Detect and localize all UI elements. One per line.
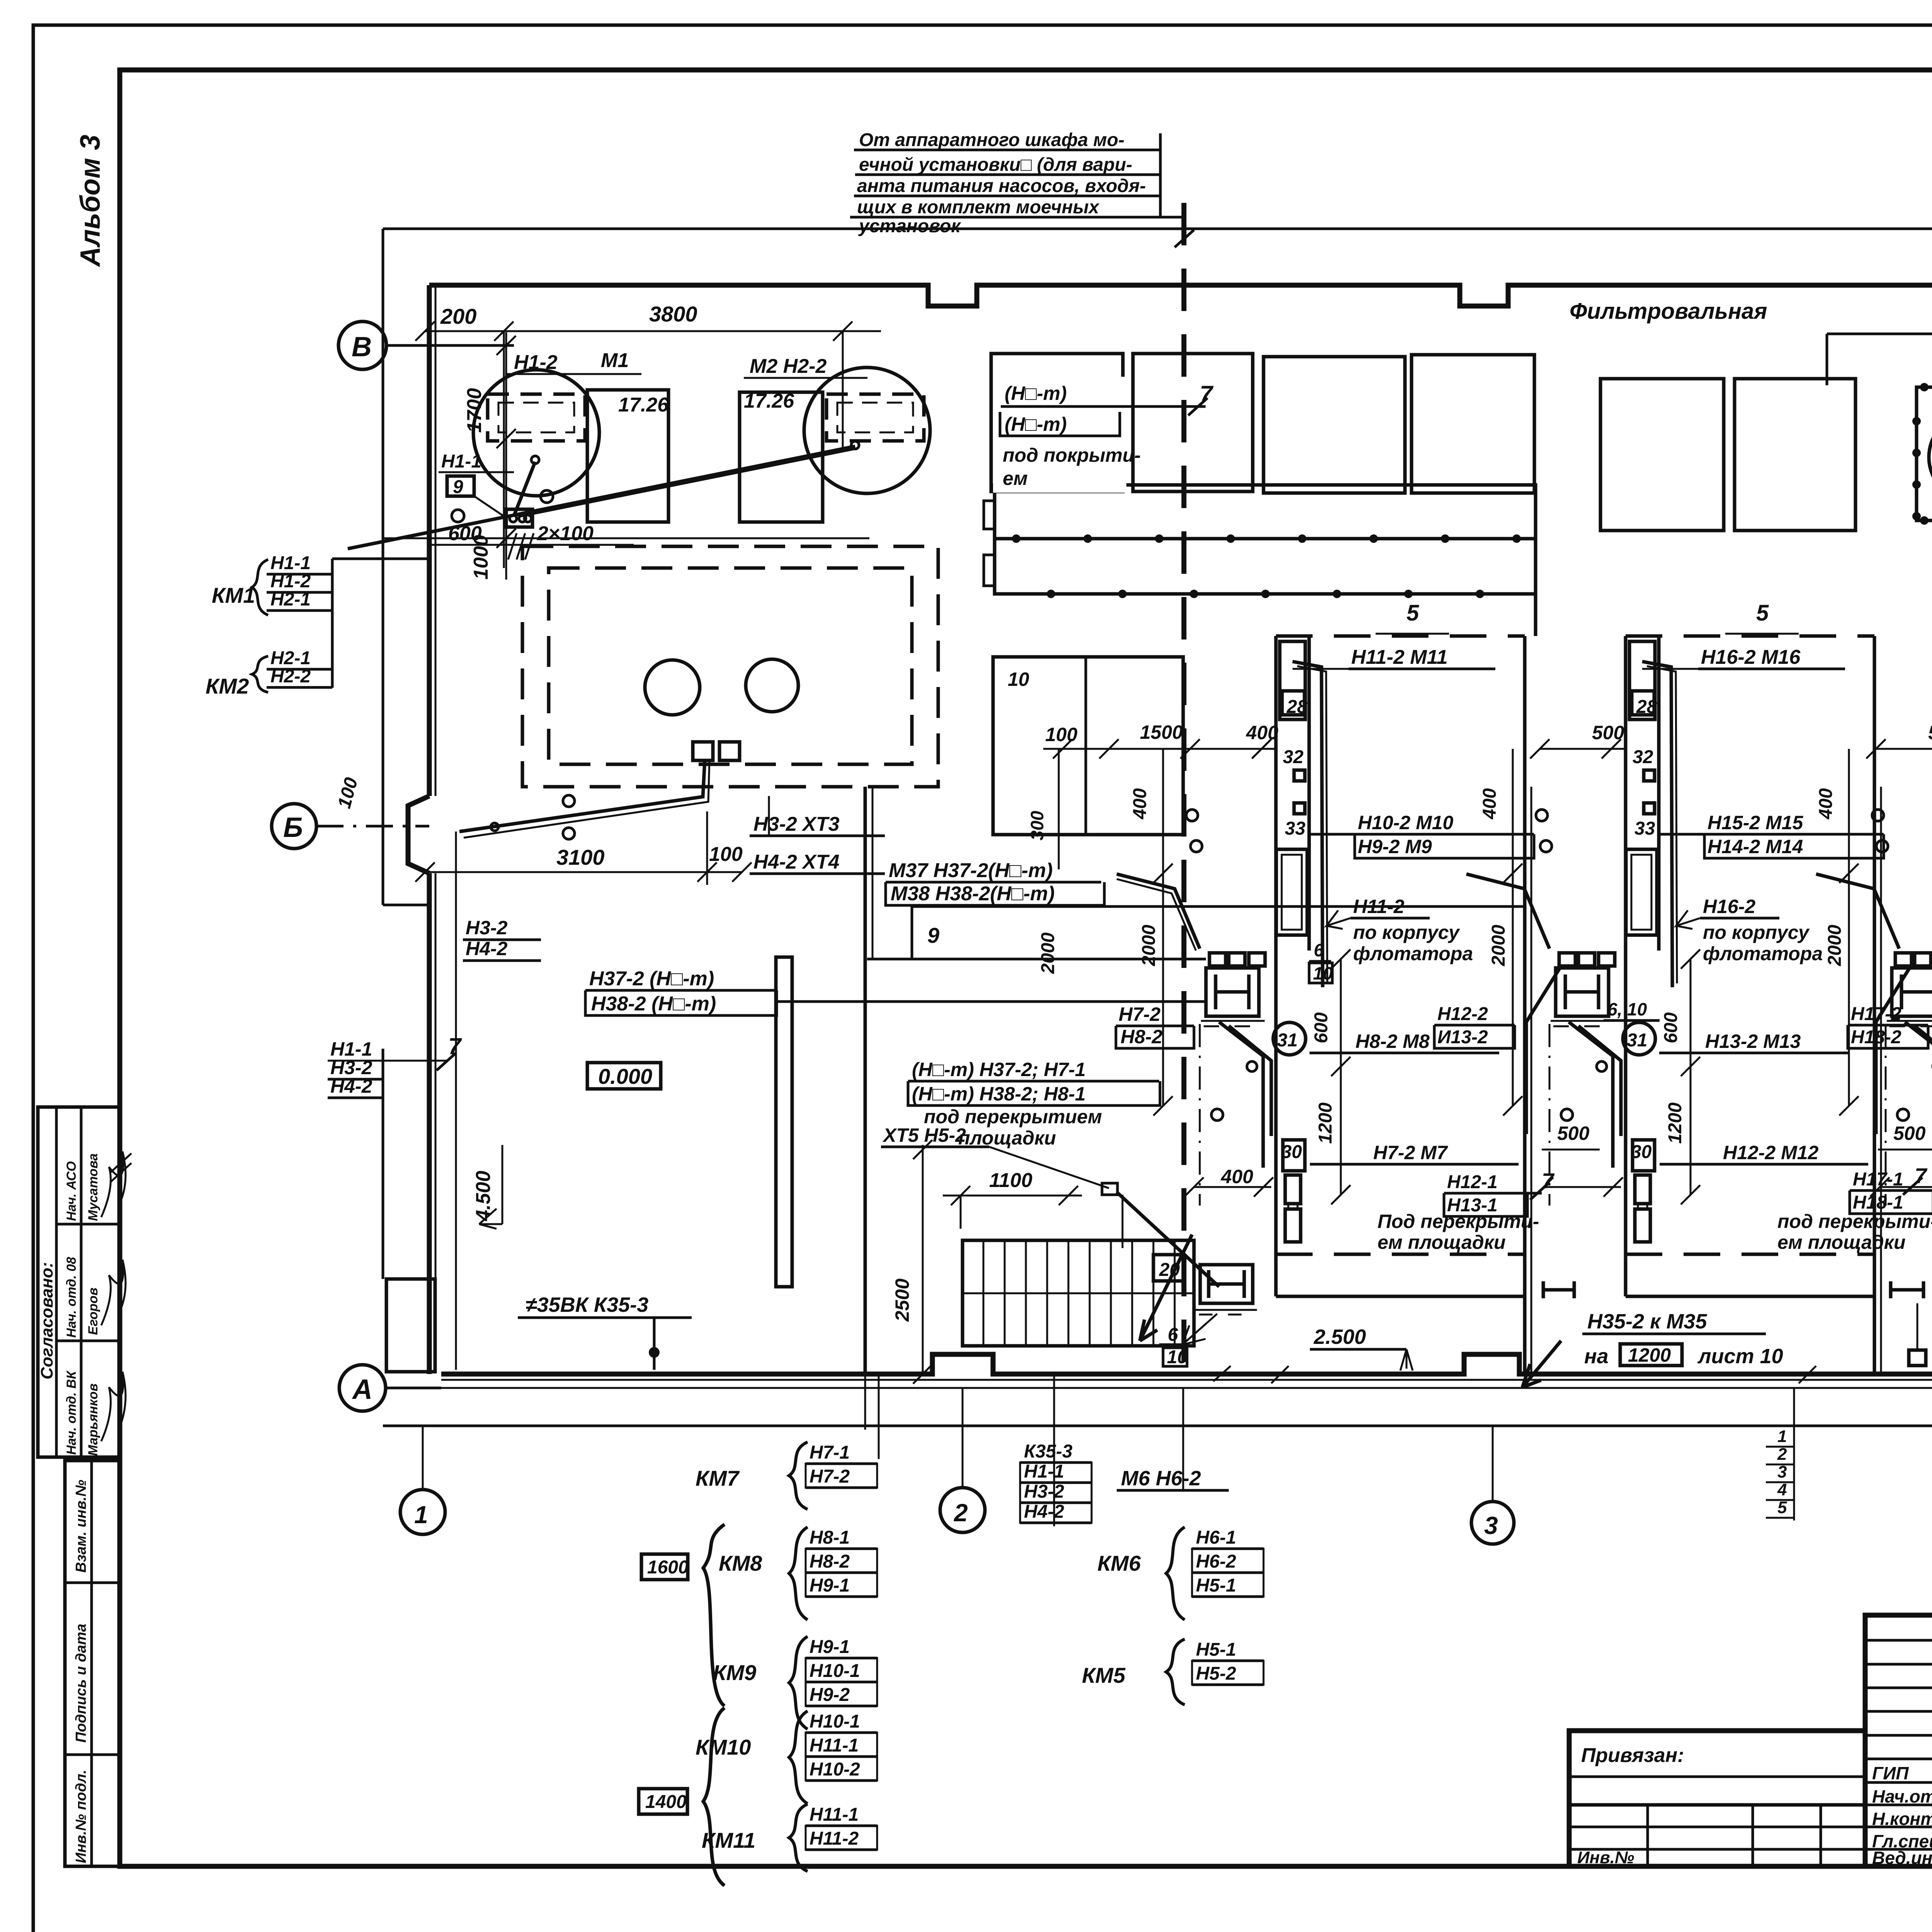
svg-text:(Н□-т) Н38-2; Н8-1: (Н□-т) Н38-2; Н8-1 [912,1083,1086,1105]
svg-text:17.26: 17.26 [744,390,794,412]
svg-text:установок: установок [858,216,961,236]
svg-text:К35-3: К35-3 [1024,1441,1073,1462]
svg-text:Н1-2: Н1-2 [270,571,311,592]
svg-text:31: 31 [1277,1030,1298,1051]
svg-text:1200: 1200 [1315,1102,1336,1144]
svg-text:Н1-1: Н1-1 [1024,1461,1064,1482]
svg-text:30: 30 [1281,1142,1302,1162]
svg-text:Нач. АСО: Нач. АСО [64,1161,79,1221]
svg-text:Взам. инв.№: Взам. инв.№ [73,1480,89,1573]
svg-text:2×100: 2×100 [537,522,594,545]
svg-text:Н3-2: Н3-2 [466,917,508,939]
svg-text:2000: 2000 [1488,925,1509,966]
svg-text:Н12-1: Н12-1 [1447,1172,1498,1192]
svg-text:500: 500 [1893,1122,1926,1144]
svg-text:100: 100 [709,843,743,866]
svg-text:Н12-2: Н12-2 [1437,1004,1488,1024]
svg-text:28: 28 [1636,697,1657,717]
svg-text:площадки: площадки [958,1127,1056,1149]
svg-text:1: 1 [414,1501,428,1529]
svg-text:Н10-2: Н10-2 [810,1759,860,1780]
svg-text:по корпусу: по корпусу [1353,922,1460,943]
svg-text:2000: 2000 [1038,932,1058,974]
svg-text:10: 10 [1167,1347,1188,1367]
svg-text:Н11-2: Н11-2 [1353,896,1405,917]
svg-text:Н4-2: Н4-2 [466,938,508,959]
svg-text:Н11-2: Н11-2 [810,1828,859,1849]
svg-text:КМ5: КМ5 [1082,1663,1126,1687]
svg-text:М37 Н37-2(Н□-т): М37 Н37-2(Н□-т) [889,859,1053,882]
svg-text:Н7-2: Н7-2 [1119,1003,1161,1025]
svg-text:Н14-2 М14: Н14-2 М14 [1708,836,1803,857]
svg-text:33: 33 [1634,818,1655,839]
svg-text:3: 3 [1484,1512,1498,1539]
svg-text:Н16-2 М16: Н16-2 М16 [1701,646,1801,668]
svg-text:Н1-2: Н1-2 [514,351,558,374]
svg-text:В: В [352,332,372,362]
svg-text:Егоров: Егоров [86,1287,100,1335]
svg-text:Н12-2 М12: Н12-2 М12 [1723,1142,1819,1163]
svg-text:1100: 1100 [989,1169,1032,1192]
svg-text:Н2-1: Н2-1 [270,648,311,668]
svg-text:Н37-2 (Н□-т): Н37-2 (Н□-т) [589,968,714,990]
svg-text:600: 600 [1661,1012,1681,1043]
svg-text:17.26: 17.26 [618,394,669,416]
svg-text:400: 400 [1480,788,1500,820]
svg-text:Н8-1: Н8-1 [810,1527,850,1548]
svg-text:Н11-2 М11: Н11-2 М11 [1351,646,1448,668]
svg-text:5: 5 [1406,600,1419,626]
svg-text:Инв.№ подл.: Инв.№ подл. [73,1770,89,1863]
svg-text:30: 30 [1631,1142,1652,1162]
svg-text:Н.контр.: Н.контр. [1872,1809,1932,1829]
svg-text:КМ7: КМ7 [696,1466,740,1490]
svg-text:М1: М1 [601,349,629,372]
svg-text:400: 400 [1246,722,1279,743]
svg-text:600: 600 [448,522,482,545]
svg-text:Н10-2 М10: Н10-2 М10 [1358,812,1454,833]
svg-text:А: А [352,1374,372,1405]
svg-text:100: 100 [1045,724,1078,745]
svg-text:Н18-1: Н18-1 [1853,1192,1903,1213]
svg-text:И13-2: И13-2 [1437,1027,1488,1048]
svg-text:М6 Н6-2: М6 Н6-2 [1121,1467,1201,1490]
svg-text:3: 3 [1777,1463,1787,1481]
svg-text:6, 10: 6, 10 [1607,999,1647,1019]
svg-text:Н1-1: Н1-1 [270,553,311,573]
svg-text:Н5-1: Н5-1 [1196,1639,1236,1660]
svg-text:ГИП: ГИП [1872,1763,1909,1783]
svg-text:3100: 3100 [556,845,605,869]
svg-text:Н8-2 М8: Н8-2 М8 [1355,1031,1430,1052]
svg-text:КМ9: КМ9 [713,1660,756,1685]
svg-text:лист 10: лист 10 [1697,1345,1783,1368]
svg-text:2000: 2000 [1139,925,1159,966]
svg-text:(Н□-т): (Н□-т) [1005,383,1067,404]
svg-text:М38 Н38-2(Н□-т): М38 Н38-2(Н□-т) [891,883,1054,905]
svg-text:ХТ5 Н5-2: ХТ5 Н5-2 [882,1124,966,1146]
svg-text:5: 5 [1777,1498,1787,1517]
svg-text:2: 2 [1777,1445,1787,1464]
svg-text:Н6-2: Н6-2 [1196,1551,1236,1572]
svg-text:Н4-2: Н4-2 [330,1075,372,1097]
svg-text:Н2-1: Н2-1 [270,589,311,610]
svg-text:Н11-1: Н11-1 [810,1804,859,1825]
svg-text:32: 32 [1633,747,1653,767]
svg-text:2500: 2500 [891,1279,913,1322]
svg-text:Под перекрыти-: Под перекрыти- [1378,1211,1539,1232]
svg-text:9: 9 [453,477,463,497]
svg-text:Н7-2: Н7-2 [810,1466,850,1487]
svg-text:4: 4 [1777,1480,1787,1499]
svg-text:Н3-2 ХТ3: Н3-2 ХТ3 [753,813,840,835]
svg-text:Н16-2: Н16-2 [1703,896,1755,917]
svg-text:щих в комплект моечных: щих в комплект моечных [857,197,1100,218]
svg-text:400: 400 [1130,788,1150,820]
svg-text:Нач. отд. ВК: Нач. отд. ВК [64,1370,79,1455]
svg-text:Нач. отд. 08: Нач. отд. 08 [64,1257,79,1338]
svg-text:на: на [1584,1345,1609,1368]
svg-text:200: 200 [440,304,476,328]
svg-text:Н7-1: Н7-1 [810,1442,850,1463]
svg-text:Н4-2 ХТ4: Н4-2 ХТ4 [753,851,840,873]
svg-text:Мусатова: Мусатова [86,1153,100,1221]
svg-text:0.000: 0.000 [598,1064,652,1088]
svg-text:Н13-2 М13: Н13-2 М13 [1705,1031,1801,1052]
svg-text:Н4-2: Н4-2 [1024,1502,1064,1522]
svg-text:под покрыти-: под покрыти- [1003,444,1141,466]
svg-text:Н11-1: Н11-1 [810,1735,859,1756]
svg-text:под перекрыти-: под перекрыти- [1777,1211,1932,1232]
svg-text:Н9-2 М9: Н9-2 М9 [1358,836,1432,857]
svg-text:1200: 1200 [1628,1344,1671,1366]
svg-text:600: 600 [1311,1012,1332,1043]
svg-text:Фильтровальная: Фильтровальная [1570,299,1767,324]
svg-text:Н10-1: Н10-1 [810,1711,860,1732]
svg-text:10: 10 [1008,668,1029,690]
svg-text:Н9-1: Н9-1 [810,1575,850,1596]
svg-text:М2 Н2-2: М2 Н2-2 [750,355,827,378]
svg-text:≠35ВК К35-3: ≠35ВК К35-3 [526,1293,648,1316]
svg-text:КМ2: КМ2 [206,674,249,698]
svg-text:31: 31 [1627,1030,1647,1051]
svg-text:по корпусу: по корпусу [1703,922,1810,943]
svg-text:Альбом 3: Альбом 3 [75,135,106,267]
svg-text:Б: Б [283,812,303,843]
svg-text:10: 10 [1313,963,1333,983]
svg-text:Инв.№: Инв.№ [1577,1848,1634,1867]
svg-text:33: 33 [1285,818,1306,839]
svg-text:(Н□-т) Н37-2; Н7-1: (Н□-т) Н37-2; Н7-1 [912,1059,1086,1080]
svg-text:1600: 1600 [647,1557,689,1578]
svg-text:Н9-2: Н9-2 [810,1685,850,1705]
svg-text:Подпись и дата: Подпись и дата [73,1624,89,1743]
svg-text:КМ10: КМ10 [696,1735,751,1759]
svg-text:ем площадки: ем площадки [1378,1231,1506,1253]
svg-text:28: 28 [1286,697,1308,717]
svg-text:Н9-1: Н9-1 [810,1637,850,1657]
svg-text:2: 2 [954,1499,968,1527]
svg-text:Н38-2 (Н□-т): Н38-2 (Н□-т) [591,993,716,1015]
svg-text:300: 300 [1027,811,1047,840]
svg-text:КМ6: КМ6 [1097,1551,1141,1575]
svg-text:6: 6 [1314,940,1324,960]
svg-text:флотатора: флотатора [1353,943,1473,964]
svg-text:Н7-2 М7: Н7-2 М7 [1373,1142,1448,1163]
svg-text:1200: 1200 [1665,1102,1685,1144]
svg-text:Н6-1: Н6-1 [1196,1527,1236,1548]
svg-text:ем: ем [1003,468,1028,489]
svg-text:Н8-2: Н8-2 [1121,1026,1163,1048]
svg-text:Н15-2 М15: Н15-2 М15 [1708,812,1804,833]
svg-text:3800: 3800 [649,302,697,326]
svg-text:под перекрытием: под перекрытием [924,1106,1102,1128]
svg-text:500: 500 [1557,1122,1590,1144]
svg-text:2000: 2000 [1825,925,1845,966]
svg-text:флотатора: флотатора [1703,943,1823,964]
svg-text:Н17-1: Н17-1 [1853,1169,1903,1190]
svg-text:Н5-1: Н5-1 [1196,1575,1236,1596]
svg-text:КМ8: КМ8 [719,1551,762,1575]
svg-text:500: 500 [1928,722,1932,743]
svg-text:20: 20 [1159,1260,1180,1280]
svg-text:Н10-1: Н10-1 [810,1661,860,1681]
svg-text:400: 400 [1816,788,1836,820]
svg-text:Вед.инж: Вед.инж [1872,1848,1932,1868]
svg-text:Нач.отд.: Нач.отд. [1872,1786,1932,1806]
svg-text:400: 400 [1221,1166,1253,1187]
svg-text:32: 32 [1283,747,1304,767]
svg-text:6: 6 [1168,1325,1178,1345]
svg-text:КМ1: КМ1 [212,583,255,607]
svg-text:Н3-2: Н3-2 [1024,1481,1064,1502]
svg-text:Согласовано:: Согласовано: [37,1262,56,1379]
svg-text:2.500: 2.500 [1313,1325,1366,1349]
svg-text:5: 5 [1756,600,1769,626]
svg-text:(Н□-т): (Н□-т) [1005,413,1067,435]
svg-text:Н2-2: Н2-2 [270,666,311,687]
svg-text:Марьянков: Марьянков [86,1383,100,1456]
svg-text:Привязан:: Привязан: [1581,1744,1684,1767]
svg-text:Н35-2 к М35: Н35-2 к М35 [1587,1310,1707,1333]
svg-text:анта питания насосов, входя-: анта питания насосов, входя- [857,176,1146,196]
svg-text:1400: 1400 [645,1792,687,1812]
svg-text:Н8-2: Н8-2 [810,1551,850,1572]
svg-text:Н1-1: Н1-1 [441,451,481,472]
svg-text:Н5-2: Н5-2 [1196,1663,1236,1684]
svg-text:9: 9 [927,923,939,947]
svg-text:От аппаратного шкафа мо-: От аппаратного шкафа мо- [859,130,1124,150]
svg-text:1: 1 [1777,1427,1787,1446]
svg-text:1500: 1500 [1140,721,1183,743]
svg-text:ечной установки□ (для вари-: ечной установки□ (для вари- [859,155,1132,175]
svg-text:ем площадки: ем площадки [1777,1231,1906,1253]
